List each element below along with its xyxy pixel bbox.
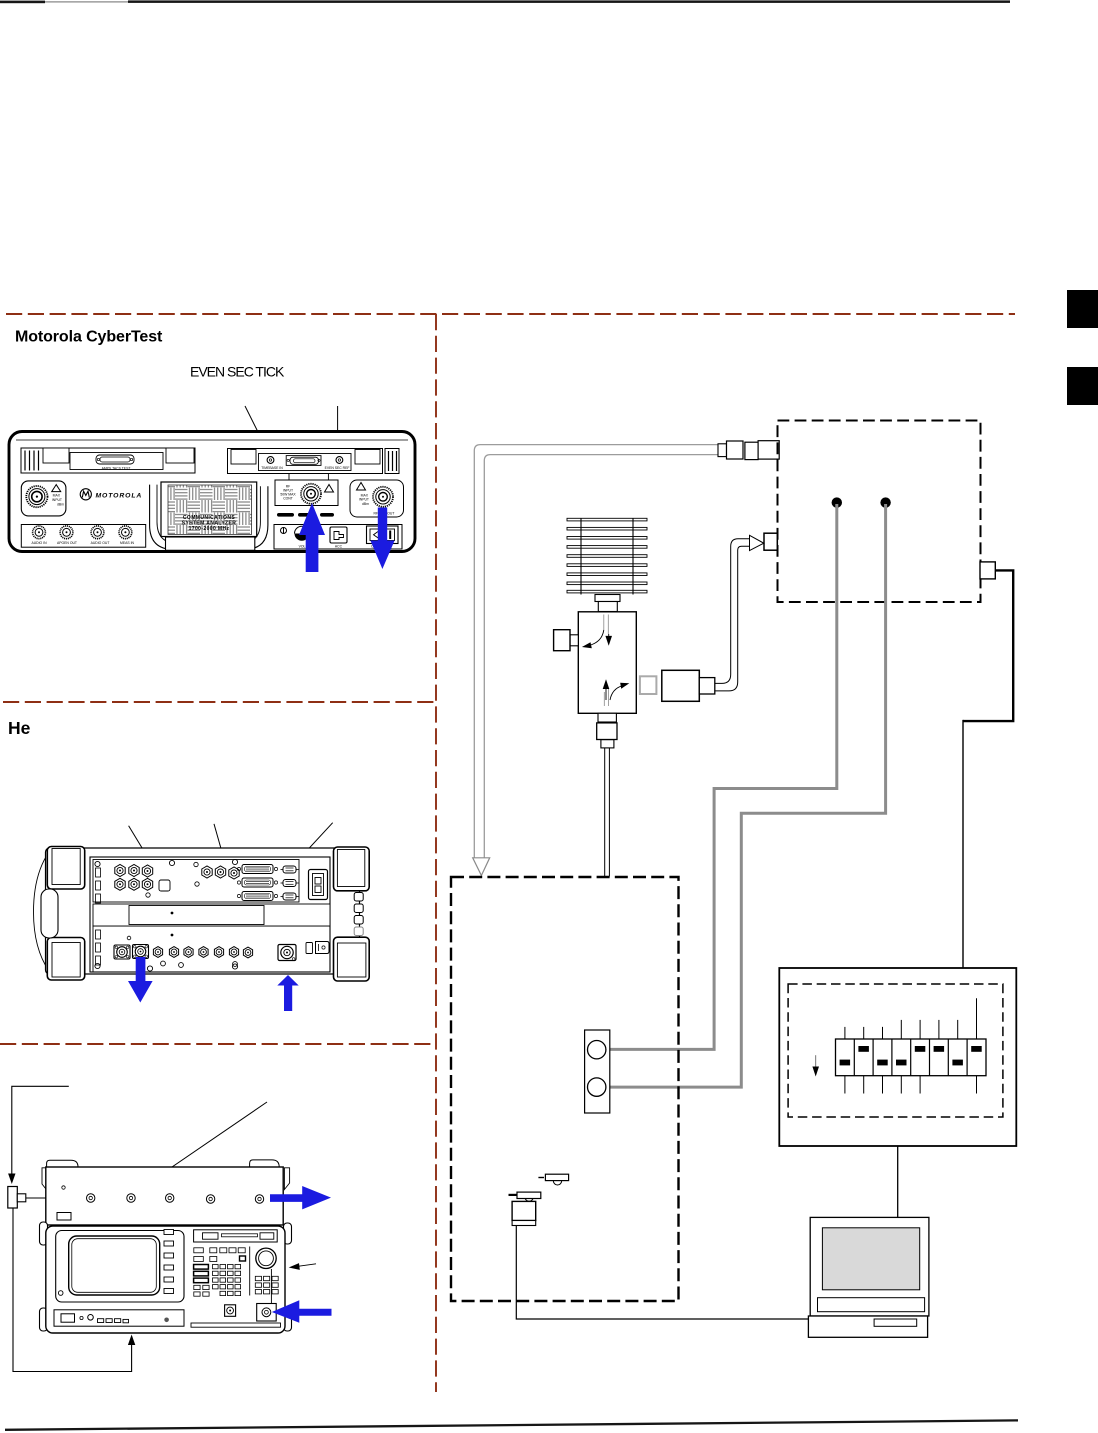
HP bumper bottom-right: [334, 937, 370, 981]
spectrum blue arrow right: [270, 1186, 331, 1209]
spectrum top corner bumpers: [42, 1160, 290, 1191]
HP pointer line 1: [129, 826, 197, 939]
spectrum bottom thin bar: [191, 1323, 281, 1327]
external attenuator connector: [8, 1187, 26, 1209]
analyzer handle recess: [150, 485, 268, 550]
spectrum front corner bumpers: [40, 1222, 292, 1331]
HP pointer line 2: [214, 824, 247, 940]
computer monitor: [810, 1217, 929, 1316]
spectrum top-right slot section: [194, 1230, 278, 1242]
spectrum blue arrow left: [272, 1300, 332, 1323]
HP bottom connector row: [114, 936, 296, 967]
HP blue arrow up: [277, 975, 298, 1011]
base station dashed box: [778, 421, 981, 603]
Motorola logo: [80, 489, 142, 500]
section divider dashed line vertical: [435, 314, 437, 1392]
page margin tab 1: [1067, 290, 1098, 328]
DIP switch row: [836, 1039, 987, 1076]
coax pipe from base station to RF coupler: [473, 445, 719, 876]
HP body: [46, 848, 360, 974]
gray cable antenna B to connector plate: [603, 504, 886, 1087]
page top rule: [0, 0, 1010, 3]
HP bumper bottom-left: [47, 938, 84, 981]
coupler bottom neck: [597, 713, 617, 748]
wire regulator to computer: [516, 1226, 808, 1320]
spectrum cal connector small: [225, 1305, 236, 1317]
spectrum divider lines: [250, 1247, 272, 1305]
wire from top to external attenuator: [8, 1086, 69, 1184]
spectrum keypad: [194, 1248, 246, 1296]
coax barrel connector at base station: [718, 441, 779, 460]
svg-text:INPUT: INPUT: [52, 498, 62, 502]
arrow into CAL OUT bnc: [26, 1194, 81, 1201]
HP bumper top-right: [334, 847, 370, 891]
pipe attenuator to base station port: [715, 535, 764, 691]
analyzer top strip left: [21, 448, 195, 473]
HP inner panel: [90, 857, 330, 972]
HP right square column: [354, 893, 363, 936]
thin coax down to mobile box: [605, 748, 610, 877]
page bottom rule: [5, 1420, 1018, 1429]
HP D-sub connectors: [237, 865, 298, 901]
svg-text:dBm: dBm: [57, 502, 64, 506]
coupler right port collar: [640, 676, 657, 694]
analyzer right vents: [385, 449, 399, 474]
gray cable antenna A to connector plate: [603, 504, 837, 1049]
gas regulator with cylinder: [509, 1192, 541, 1225]
analyzer RF GEN OUT panel: [350, 480, 404, 517]
analyzer RF INPUT panel: [275, 480, 338, 506]
heatsink neck: [595, 595, 620, 612]
analyzer center hatched panel: [161, 482, 257, 550]
gas regulator small tee: [538, 1174, 568, 1185]
svg-text:VOL: VOL: [299, 545, 306, 549]
coupler internal flow arrows bottom: [603, 679, 630, 706]
section divider dashed line horizontal mid: [3, 701, 436, 703]
svg-text:AUDIO OUT: AUDIO OUT: [91, 541, 110, 545]
HP power inlet: [306, 942, 329, 954]
pointer line to TIMEBASE IN: [245, 406, 267, 451]
analyzer MAX INPUT panel left: [21, 481, 66, 516]
HP pointer line 3: [271, 823, 333, 890]
DIP switch leads bottom: [845, 1076, 977, 1094]
blue arrow down RF GEN OUT: [370, 508, 394, 570]
coupler left knob: [554, 630, 579, 651]
svg-text:Motorola CyberTest: Motorola CyberTest: [15, 329, 163, 346]
attenuator block: [662, 670, 715, 701]
antenna connector plate: [585, 1030, 610, 1113]
svg-text:EVEN SEC TICK: EVEN SEC TICK: [190, 364, 285, 380]
svg-text:EVEN SEC REF: EVEN SEC REF: [325, 466, 350, 470]
HP left handle: [41, 889, 58, 938]
DIP switch leads top: [845, 998, 977, 1039]
svg-text:TIMEBASE IN: TIMEBASE IN: [261, 466, 283, 470]
spectrum softkeys: [164, 1230, 174, 1294]
analyzer power strip: [274, 525, 402, 550]
svg-text:MOTOROLA: MOTOROLA: [96, 492, 143, 499]
spectrum right key group: [255, 1276, 278, 1294]
directional coupler body: [578, 612, 636, 714]
black cable from right port to DIP box: [963, 570, 1013, 968]
DIP switch box: [779, 968, 1016, 1146]
spectrum CRT bezel: [56, 1231, 184, 1303]
blue arrow up RF INPUT: [299, 503, 325, 572]
spectrum RF input connector: [257, 1304, 277, 1322]
HP bumper top-left: [47, 847, 84, 890]
spectrum bottom strip: [54, 1310, 184, 1326]
svg-text:AUDIO IN: AUDIO IN: [31, 541, 47, 545]
svg-text:CONT: CONT: [283, 497, 293, 501]
spectrum top rear panel: [46, 1167, 283, 1225]
svg-text:APGEN OUT: APGEN OUT: [57, 541, 77, 545]
antenna post B: [880, 497, 890, 507]
svg-text:MEAS IN: MEAS IN: [120, 541, 134, 545]
analyzer top strip right: [228, 449, 383, 481]
analyzer dash marks: [277, 513, 334, 517]
black arrow pointing at knob area: [289, 1263, 316, 1270]
svg-text:dBm: dBm: [362, 502, 369, 506]
computer base unit: [808, 1316, 927, 1337]
mobile station dashed box: [451, 877, 679, 1301]
svg-text:ACC: ACC: [335, 545, 343, 549]
port square on base station right edge: [980, 562, 995, 579]
analyzer audio strip: [21, 525, 145, 548]
pointer line to EVEN SEC REF: [334, 406, 340, 450]
coupler internal flow arrows top: [582, 615, 612, 649]
svg-text:He: He: [8, 718, 31, 738]
HP middle recessed band: [93, 904, 330, 936]
wire from attenuator to bottom strip: [13, 1208, 135, 1372]
spectrum pointer diagonal: [137, 1102, 268, 1192]
small port square on base station left edge: [764, 533, 777, 550]
section divider dashed line horizontal top: [6, 313, 1015, 315]
DIP box down arrow: [812, 1055, 819, 1076]
section divider dashed line horizontal lower: [0, 1043, 436, 1045]
HP top hex BNC cluster: [115, 862, 239, 897]
cable DIP box to computer: [897, 1146, 899, 1217]
analyzer body: [9, 432, 415, 552]
page margin tab 2: [1067, 367, 1098, 405]
HP left cap: [34, 852, 50, 971]
spectrum knob: [256, 1248, 276, 1268]
HP right switch module: [309, 870, 328, 900]
svg-text:1700-2000 MHz: 1700-2000 MHz: [189, 526, 230, 532]
antenna post A: [832, 497, 842, 507]
HP blue arrow down: [128, 957, 153, 1003]
svg-text:AMPS TACS TEST: AMPS TACS TEST: [102, 467, 131, 471]
heatsink fins: [567, 518, 647, 594]
spectrum front panel: [46, 1226, 285, 1333]
